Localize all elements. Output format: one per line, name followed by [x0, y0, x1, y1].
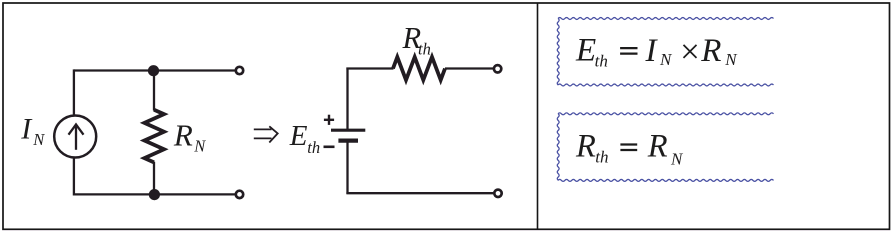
svg-text:th: th	[307, 138, 320, 157]
formula R_th = R_N	[575, 128, 684, 168]
svg-text:R: R	[173, 117, 193, 152]
node: top junction dot	[148, 65, 159, 76]
wire: Thevenin bottom rail	[346, 192, 493, 194]
svg-text:N: N	[193, 137, 206, 156]
label E_th	[289, 120, 320, 157]
label R_th	[402, 21, 431, 59]
polarity + sign	[324, 115, 334, 125]
resistor R_th (horizontal zigzag)	[393, 57, 445, 80]
formula E_th = I_N x R_N	[575, 32, 738, 71]
svg-text:th: th	[595, 147, 608, 166]
terminal: Thevenin top (open circle)	[494, 65, 501, 72]
wire: Thevenin left branch verticals	[346, 68, 348, 195]
wire: Thevenin top rail	[346, 67, 493, 69]
svg-text:th: th	[595, 52, 608, 71]
svg-text:E: E	[575, 33, 596, 69]
svg-text:R: R	[647, 129, 668, 165]
terminal: Norton top (open circle)	[236, 67, 243, 74]
svg-text:I: I	[645, 33, 659, 69]
battery E_th negative plate (short)	[338, 139, 358, 143]
node: bottom junction dot	[149, 189, 160, 200]
svg-text:×: ×	[678, 32, 702, 71]
terminal: Norton bottom (open circle)	[236, 191, 243, 198]
svg-text:N: N	[659, 50, 673, 69]
implication double arrow	[254, 126, 278, 142]
battery E_th positive plate (long)	[331, 129, 365, 132]
resistor R_N (vertical zigzag)	[144, 71, 164, 195]
terminal: Thevenin bottom (open circle)	[494, 190, 501, 197]
svg-text:th: th	[418, 40, 431, 59]
svg-text:N: N	[670, 149, 684, 168]
svg-text:R: R	[700, 33, 721, 69]
label I_N	[20, 113, 45, 149]
polarity - sign	[324, 146, 335, 149]
formula box 2 wavy border (top, left, bottom)	[557, 113, 773, 181]
wire: Norton top rail (node A)	[74, 69, 236, 71]
formula box 1 wavy border (top, left, bottom)	[557, 18, 773, 86]
wire: Norton left branch verticals	[73, 69, 75, 195]
wire: Norton bottom rail (node B)	[74, 193, 236, 195]
svg-text:N: N	[32, 130, 45, 149]
label R_N	[173, 117, 206, 155]
current source I_N (circle with up arrow)	[54, 116, 96, 158]
svg-text:R: R	[575, 128, 596, 164]
svg-text:N: N	[724, 50, 738, 69]
svg-text:E: E	[289, 120, 308, 152]
